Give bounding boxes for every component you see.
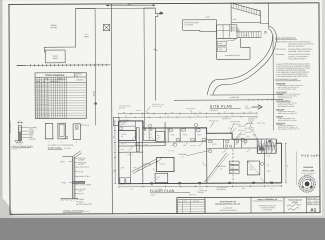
wall left cluster	[142, 121, 144, 146]
partition leader notes right	[75, 157, 78, 159]
tag circles	[241, 138, 244, 141]
frame detail base marks	[15, 140, 19, 142]
existing building south wall	[217, 58, 250, 60]
entry vestibule right (hatched)	[257, 139, 276, 153]
street line with jog	[155, 8, 158, 100]
scan grain overlay	[0, 0, 1, 1]
bold display room	[157, 157, 174, 171]
floor plan top dimension lines	[119, 112, 257, 115]
door tag marks on bottom wall	[150, 182, 153, 184]
tank storage boxes	[229, 161, 239, 165]
partition base notes	[76, 198, 78, 200]
street survey ticks	[248, 99, 250, 101]
top strip rooms mid	[167, 128, 169, 142]
driveway inner edge	[207, 29, 273, 95]
parking stall ticks	[233, 4, 235, 9]
door type 3 with louver	[73, 124, 80, 140]
bottom dimension line	[119, 185, 282, 188]
driveway north stem	[268, 3, 270, 29]
right margin vertical	[295, 151, 297, 185]
door type 1	[45, 123, 52, 139]
title block frame	[177, 196, 320, 199]
top strip rooms right	[207, 147, 257, 149]
existing building east side	[241, 38, 250, 59]
frame detail top dimension	[17, 121, 23, 123]
thick wall right of office	[135, 127, 137, 151]
top dimension line 450 ft	[106, 4, 155, 6]
door schedule column headers	[35, 79, 66, 81]
parcel top line	[144, 7, 155, 9]
partition blocking bar	[72, 181, 85, 183]
door 3 vision circle	[75, 125, 78, 128]
engineer cell	[250, 197, 252, 213]
new entry vestibule upper left	[113, 117, 119, 125]
sheet title cell	[283, 197, 285, 213]
corridor	[119, 141, 165, 143]
throat marker circle	[264, 31, 266, 33]
partition left note	[69, 181, 73, 183]
left dimension line	[114, 121, 116, 184]
floor plan exterior walls	[119, 120, 258, 140]
utility box with X	[103, 24, 109, 30]
partition ceiling line	[62, 156, 72, 158]
bottom-left page corner shadow	[0, 196, 14, 218]
toilet rooms	[143, 128, 155, 140]
existing loading wing	[183, 20, 217, 32]
partition floor line	[60, 198, 78, 200]
door type 2 with lite	[58, 123, 66, 139]
door schedule rows	[35, 84, 86, 86]
railroad track line	[17, 64, 111, 66]
door schedule table	[35, 73, 86, 119]
signature scribble	[287, 204, 301, 207]
parcel top line full	[76, 7, 155, 9]
parking to road connector	[261, 22, 269, 24]
east parcel line	[143, 8, 146, 129]
existing office rooms	[217, 25, 237, 39]
property line west	[94, 8, 97, 125]
project name cell	[204, 197, 206, 213]
dim tick on property line	[94, 103, 97, 105]
frame detail bottom dim	[17, 142, 23, 144]
room 202 box	[247, 161, 260, 175]
long diagonal crane rail	[204, 153, 226, 182]
leader note	[233, 38, 237, 40]
sheet number cell	[306, 197, 308, 213]
partition wall section	[72, 157, 74, 199]
right column wall	[263, 148, 265, 183]
frame detail jamb section	[17, 126, 19, 141]
office room bold	[119, 130, 136, 140]
strip room fixtures	[169, 129, 172, 131]
strip toilet fixtures	[226, 145, 228, 147]
frame detail door leaf	[19, 132, 20, 142]
janitor room	[156, 131, 165, 141]
parking area top	[231, 3, 261, 24]
partition top break	[73, 151, 81, 157]
driveway outer edge	[212, 26, 276, 95]
frame detail leader notes	[22, 127, 29, 129]
main existing building west wall	[216, 20, 218, 60]
new ramp boxes	[218, 41, 227, 46]
existing shed box	[45, 50, 65, 63]
bottom-left rooms	[119, 151, 143, 153]
lower parking stalls	[237, 31, 261, 33]
mezzanine dashed line	[232, 149, 234, 183]
property line step (adjacent parcel)	[44, 8, 95, 52]
door schedule corner note	[74, 73, 76, 77]
legend divider line	[272, 35, 274, 130]
engineer seal	[299, 176, 315, 192]
survey mark near street top	[158, 12, 163, 15]
right dimension line	[285, 143, 287, 183]
revision table	[177, 199, 205, 213]
lot line	[111, 4, 112, 214]
shop leader	[186, 150, 210, 156]
street edges	[210, 94, 283, 96]
door swing arcs	[132, 136, 136, 140]
mid vertical wall	[206, 133, 208, 183]
compressor room	[155, 173, 168, 183]
